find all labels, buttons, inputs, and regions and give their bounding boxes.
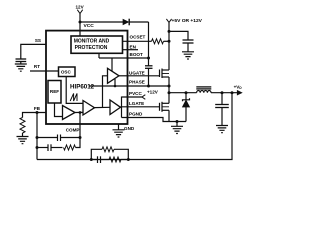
svg-text:+5V OR +12V: +5V OR +12V — [172, 18, 203, 24]
svg-text:PGND: PGND — [129, 112, 143, 117]
svg-text:BOOT: BOOT — [130, 52, 143, 57]
svg-text:PHASE: PHASE — [129, 80, 145, 85]
svg-text:UGATE: UGATE — [129, 70, 145, 75]
svg-text:12V: 12V — [76, 5, 85, 10]
svg-text:EN: EN — [130, 44, 137, 49]
svg-text:OSC: OSC — [61, 69, 72, 74]
svg-text:+12V: +12V — [147, 90, 159, 95]
svg-text:LGATE: LGATE — [129, 101, 144, 106]
svg-text:GND: GND — [124, 126, 135, 131]
svg-text:COMP: COMP — [66, 128, 80, 133]
svg-text:SS: SS — [35, 38, 41, 43]
svg-text:MONITOR AND: MONITOR AND — [74, 39, 110, 45]
svg-text:RT: RT — [34, 64, 40, 69]
svg-text:HIP6012: HIP6012 — [70, 84, 95, 91]
svg-text:PROTECTION: PROTECTION — [75, 45, 108, 51]
svg-text:FB: FB — [34, 106, 41, 111]
svg-text:REF: REF — [50, 89, 59, 94]
svg-text:OCSET: OCSET — [130, 35, 146, 40]
svg-text:PVCC: PVCC — [129, 91, 142, 96]
svg-text:VCC: VCC — [84, 23, 95, 29]
svg-text:O: O — [239, 86, 242, 90]
